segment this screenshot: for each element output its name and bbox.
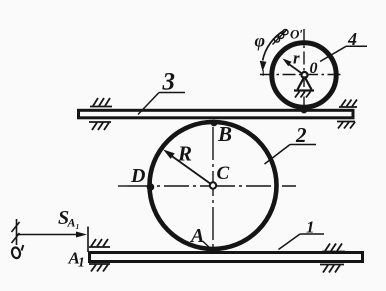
svg-text:3: 3 <box>162 69 176 96</box>
svg-text:C: C <box>217 163 230 184</box>
hatching rail 1 left above <box>89 239 110 247</box>
label A tick <box>203 241 211 248</box>
rail 3 (upper rail) <box>79 110 354 118</box>
centerline horizontal of pulley 4 <box>260 74 341 76</box>
rail 1 (lower rail) <box>90 253 363 262</box>
angle arrow phi <box>260 31 284 76</box>
svg-text:r: r <box>293 49 300 68</box>
contact dot pulley/rail <box>301 107 308 114</box>
svg-text:A₁: A₁ <box>67 216 80 230</box>
svg-text:2: 2 <box>295 123 307 147</box>
pulley 4 (small circle) <box>272 43 336 107</box>
radius r arrow <box>283 59 305 76</box>
label o' <box>11 245 23 259</box>
disk 2 (large circle) <box>150 122 277 249</box>
svg-text:B: B <box>217 122 232 146</box>
fixed mark coil at O' <box>273 29 289 44</box>
node B (contact dot top) <box>211 120 218 127</box>
svg-text:D: D <box>130 165 145 187</box>
hatching rail 3 left above <box>90 98 112 107</box>
node A1 tick line <box>87 227 89 253</box>
label 1 with leader <box>279 218 325 250</box>
node A (contact dot bottom) <box>209 247 216 254</box>
hatching rail 3 right below <box>337 122 355 129</box>
displacement arrow S_A1 <box>17 232 87 238</box>
node D (dot on left of disk) <box>147 183 155 191</box>
svg-text:O′: O′ <box>290 27 303 42</box>
svg-text:R: R <box>177 142 192 166</box>
hatching rail 3 left below <box>89 122 111 130</box>
label 2 with leader <box>265 123 317 164</box>
centerline vertical of pulley 4 <box>303 29 305 110</box>
label 3 with leader <box>138 69 185 115</box>
svg-text:A: A <box>189 225 204 247</box>
radius R arrow <box>163 150 213 186</box>
hatching rail 3 right above <box>339 100 357 108</box>
svg-text:1: 1 <box>78 255 85 270</box>
centerline vertical of disk 2 <box>212 127 214 252</box>
hatching rail 1 right below <box>320 265 344 273</box>
svg-text:φ: φ <box>255 31 266 51</box>
center C marker <box>210 182 216 188</box>
centerline horizontal of disk 2 <box>118 185 296 187</box>
hatching rail 1 right above <box>322 244 345 252</box>
pivot support of pulley 4 <box>294 77 314 98</box>
center O marker <box>302 72 308 78</box>
hatching rail 1 left below <box>89 264 110 272</box>
wall mark at o' <box>12 219 20 245</box>
label 4 with leader <box>320 29 367 62</box>
svg-text:0: 0 <box>310 60 318 77</box>
